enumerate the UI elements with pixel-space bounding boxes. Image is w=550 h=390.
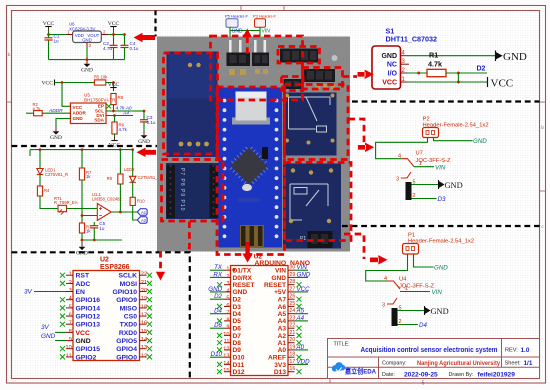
svg-text:5: 5 <box>422 381 425 387</box>
arrow head up to headers <box>243 29 252 38</box>
svg-text:1u: 1u <box>99 226 105 231</box>
regulator U6 pin 3 stub <box>87 43 92 49</box>
U2 ARDUINO_NANO pin 8 D5 <box>217 317 241 325</box>
U2 ARDUINO_NANO pin 30 VIN <box>275 264 308 274</box>
photo ESP32 module board <box>167 52 218 158</box>
U2 ESP8266 pin 7 GPIO13 <box>60 321 100 329</box>
svg-text:GPIO4: GPIO4 <box>116 346 137 353</box>
svg-text:CS0: CS0 <box>124 313 137 320</box>
title block frame <box>328 339 540 379</box>
U2 ARDUINO_NANO pin 22 A3 <box>278 323 302 333</box>
U2 ESP8266 pin 12 GPIO0 <box>116 353 152 361</box>
wire VCC to R5 <box>55 82 95 84</box>
svg-text:4: 4 <box>384 276 387 282</box>
capacitor C2 <box>113 35 115 60</box>
svg-text:U4: U4 <box>399 277 407 283</box>
resistor R9 body <box>119 150 121 174</box>
relay U7 pin2 wire to D3 <box>412 198 437 200</box>
svg-text:5: 5 <box>69 304 72 310</box>
photo relay board bottom <box>283 164 341 249</box>
resistor R8 body <box>111 94 116 105</box>
resistor R7 body <box>81 150 83 168</box>
svg-text:1u: 1u <box>54 38 60 43</box>
svg-text:6: 6 <box>69 313 72 319</box>
svg-text:D0/RX: D0/RX <box>233 275 253 282</box>
svg-text:A3: A3 <box>278 326 287 333</box>
svg-text:8: 8 <box>226 317 229 323</box>
svg-text:DHT11_C87032: DHT11_C87032 <box>386 35 438 44</box>
svg-text:18: 18 <box>290 352 296 358</box>
svg-text:TITLE:: TITLE: <box>334 342 350 348</box>
svg-text:GPIO14: GPIO14 <box>76 305 101 312</box>
callout leader up to headers <box>246 37 249 59</box>
U2 ESP8266 pin 14 GPIO5 <box>116 337 152 345</box>
U2 ESP8266 pin 11 GPIO2 <box>60 353 96 361</box>
svg-text:14: 14 <box>141 337 148 343</box>
svg-text:A2: A2 <box>278 333 287 340</box>
svg-text:VCC: VCC <box>297 286 311 293</box>
svg-text:13: 13 <box>223 354 229 360</box>
wire R3 to bottom rail <box>82 233 122 240</box>
U2 ESP8266 pin 21 MOSI <box>120 280 152 288</box>
U2 ESP8266 pin 1 RST <box>60 272 90 280</box>
wire SCL to C3 <box>133 110 144 112</box>
svg-text:D4: D4 <box>233 311 242 318</box>
svg-text:A4: A4 <box>122 110 129 116</box>
svg-text:GND: GND <box>233 289 248 296</box>
svg-text:VCC: VCC <box>43 21 55 27</box>
ground symbol GND right <box>496 51 502 62</box>
svg-text:3: 3 <box>69 288 72 294</box>
U2 ARDUINO_NANO pin 17 3V3 <box>274 358 310 368</box>
U2 ARDUINO_NANO pin 21 A2 <box>278 330 302 340</box>
wire opamp output <box>111 211 137 213</box>
arrow down to ESP symbol <box>156 272 165 281</box>
wire GND net from S1 pin4 <box>407 55 496 57</box>
svg-text:R_T09R_EA: R_T09R_EA <box>54 200 78 205</box>
svg-text:GND: GND <box>434 264 448 271</box>
photoresistor RT1 body <box>58 205 67 211</box>
arrow left to regulator <box>134 33 156 42</box>
wire RT1 to opamp <box>67 208 98 210</box>
ground symbol regulator <box>81 61 93 74</box>
svg-text:A2: A2 <box>141 218 147 223</box>
svg-text:12: 12 <box>141 353 147 359</box>
wire header P5 to P3 <box>230 27 260 36</box>
U2 ARDUINO_NANO pin 4 GND <box>208 286 247 296</box>
chip U2 ESP8266 body <box>73 271 140 361</box>
svg-text:A7: A7 <box>278 297 287 304</box>
svg-text:SDA: SDA <box>94 117 104 122</box>
svg-text:A4: A4 <box>278 318 287 325</box>
U2 ARDUINO_NANO pin 13 D10 <box>210 351 245 361</box>
U2 ESP8266 pin 5 GPIO14 <box>60 304 100 312</box>
wire P1 pin1 to U4 <box>366 254 408 281</box>
svg-text:19: 19 <box>141 296 147 302</box>
svg-text:GND: GND <box>82 38 92 43</box>
svg-text:3: 3 <box>396 177 399 183</box>
svg-text:Sheet:: Sheet: <box>505 361 522 367</box>
svg-text:R8: R8 <box>118 95 124 100</box>
svg-text:MISO: MISO <box>120 305 137 312</box>
svg-text:D2: D2 <box>214 293 222 300</box>
resistor R2 body <box>34 111 43 116</box>
svg-text:GND: GND <box>41 333 56 340</box>
resistor R3 body <box>81 216 83 224</box>
frame tick right divider 2 <box>540 190 546 192</box>
svg-text:2: 2 <box>69 280 72 286</box>
svg-text:22: 22 <box>290 323 296 329</box>
svg-text:D2: D2 <box>477 66 486 73</box>
svg-text:GND: GND <box>445 181 463 190</box>
svg-text:GPIO2: GPIO2 <box>76 354 97 361</box>
svg-text:D2: D2 <box>233 297 242 304</box>
svg-text:21: 21 <box>141 280 147 286</box>
svg-text:9: 9 <box>226 325 229 331</box>
svg-text:RX: RX <box>213 271 222 278</box>
svg-text:1: 1 <box>226 267 229 273</box>
S1 pin stubs <box>401 56 410 82</box>
frame tick right divider 1 <box>540 101 546 103</box>
resistor R5 body <box>94 80 105 85</box>
relay U7 switch <box>401 159 414 178</box>
U2 ARDUINO_NANO pin 27 +5V <box>274 286 310 296</box>
svg-text:VCC: VCC <box>76 330 90 337</box>
separator dashed right upper <box>352 100 540 102</box>
svg-text:VCC: VCC <box>73 105 83 110</box>
power symbol VCC right <box>487 77 489 87</box>
wire R7 to inverting input <box>82 180 97 216</box>
svg-text:20: 20 <box>290 337 296 343</box>
svg-text:GND: GND <box>81 68 93 74</box>
arrow right to DHT11 <box>358 70 374 79</box>
regulator U6 pin 2 stub <box>101 30 108 35</box>
chip U5 body <box>70 103 106 124</box>
svg-text:D8: D8 <box>233 340 242 347</box>
U2 ARDUINO_NANO pin 7 D4 <box>210 308 241 318</box>
U2 ESP8266 pin 4 GPIO16 <box>60 296 100 304</box>
svg-text:Nanjing Agricultural Universit: Nanjing Agricultural University <box>417 360 500 367</box>
wire R9 to output <box>119 184 121 212</box>
ground symbol at U7 <box>439 180 444 189</box>
separator dashed left lower with corner <box>12 252 190 378</box>
svg-text:RESET: RESET <box>264 282 286 289</box>
svg-text:D7: D7 <box>233 333 242 340</box>
svg-text:4: 4 <box>226 288 229 294</box>
callout box top right connector <box>278 47 320 64</box>
photo arduino nano board <box>219 88 283 248</box>
relay U7 coil <box>406 182 412 200</box>
wire top rail sensor <box>30 149 133 151</box>
svg-text:22: 22 <box>141 272 147 278</box>
svg-text:Drawn By:: Drawn By: <box>449 372 474 378</box>
svg-text:12: 12 <box>223 346 229 352</box>
arrow down to arduino symbol <box>245 242 249 254</box>
wire I/O net right part to D2 <box>446 72 487 74</box>
header P2 body <box>423 128 439 138</box>
chip U2 ARDUINO_NANO body <box>231 266 289 376</box>
callout box mid right connector <box>303 68 343 90</box>
svg-text:D3: D3 <box>233 304 242 311</box>
svg-text:1: 1 <box>419 161 422 167</box>
svg-text:11: 11 <box>224 339 230 345</box>
svg-text:b: b <box>8 52 11 57</box>
power flag VCC input <box>43 21 55 30</box>
U2 ARDUINO_NANO pin 12 D9 <box>217 346 241 354</box>
wire R1 to VCC vertical <box>457 73 459 82</box>
svg-text:3V3: 3V3 <box>274 362 286 369</box>
separator dashed left upper <box>12 145 158 147</box>
callout leader to ESP symbol <box>188 222 191 252</box>
relay U4 switch <box>387 281 400 304</box>
capacitor C1 <box>48 35 50 60</box>
svg-text:TXD0: TXD0 <box>120 322 138 329</box>
svg-text:A1: A1 <box>278 340 287 347</box>
callout box small connector <box>282 77 304 91</box>
U2 ARDUINO_NANO pin 2 D0/RX <box>210 271 253 281</box>
wire rail stub left <box>29 150 31 156</box>
svg-text:D11: D11 <box>233 362 245 369</box>
svg-text:16: 16 <box>141 321 147 327</box>
svg-text:P7 P8 P9 P10: P7 P8 P9 P10 <box>179 168 185 211</box>
capacitor C3 <box>143 111 145 132</box>
svg-text:VDD: VDD <box>297 358 311 365</box>
U2 ESP8266 pin 15 RXD0 <box>119 329 152 337</box>
svg-text:D4: D4 <box>214 308 222 315</box>
svg-text:7: 7 <box>226 310 229 316</box>
header P3 body <box>255 19 266 27</box>
svg-text:20: 20 <box>141 288 147 294</box>
power flag VCC below R6 <box>114 134 116 137</box>
svg-text:11: 11 <box>66 353 72 359</box>
svg-text:VIN: VIN <box>262 29 271 35</box>
wire branch to chip VCC <box>62 83 70 107</box>
U2 ESP8266 pin 2 ADC <box>60 280 90 288</box>
svg-text:D6: D6 <box>214 322 222 329</box>
callout box ESP module <box>164 53 218 154</box>
svg-text:GND: GND <box>271 275 286 282</box>
junction on I/O net right <box>457 72 460 75</box>
U2 ESP8266 pin 10 GPIO15 <box>60 345 100 353</box>
svg-text:VIN: VIN <box>432 289 443 296</box>
svg-text:GND: GND <box>473 138 487 145</box>
svg-text:MOSI: MOSI <box>120 281 137 288</box>
U2 ARDUINO_NANO pin 28 RESET <box>264 279 301 289</box>
U2 ESP8266 pin 3 EN <box>66 288 85 296</box>
U2 ESP8266 pin 6 GPIO12 <box>60 313 100 321</box>
callout box top connectors <box>211 36 303 100</box>
capacitor C5 <box>93 222 95 240</box>
U2 ARDUINO_NANO pin 14 D11 <box>217 361 245 369</box>
svg-text:0.1u: 0.1u <box>130 46 139 51</box>
U2 ESP8266 pin 18 MISO <box>120 304 152 312</box>
svg-text:feifei201929: feifei201929 <box>478 371 516 378</box>
svg-text:D5: D5 <box>233 318 242 325</box>
junction R6 top <box>113 114 116 117</box>
svg-text:R1: R1 <box>429 51 438 60</box>
wire VCC net from S1 pin1 <box>407 81 488 83</box>
U2 ARDUINO_NANO pin 11 D8 <box>217 339 241 347</box>
U2 ARDUINO_NANO pin 24 A5 <box>278 308 308 318</box>
svg-text:1.0: 1.0 <box>521 347 530 354</box>
wire R10 to port A2 <box>133 206 138 221</box>
svg-text:GND: GND <box>73 116 84 121</box>
photo mid right connector <box>304 69 335 89</box>
callout box relay bottom <box>285 163 352 241</box>
svg-text:Date:: Date: <box>382 372 395 378</box>
U2 ARDUINO_NANO pin 23 A4 <box>278 315 308 325</box>
svg-text:b: b <box>541 125 544 130</box>
wire P2 pin2 to GND label <box>434 138 473 141</box>
frame tick top divider 2 <box>283 6 285 11</box>
svg-text:3V: 3V <box>24 289 33 296</box>
U2 ARDUINO_NANO pin 5 D2 <box>210 293 241 303</box>
wire LED1 branch to RT1 <box>40 196 58 209</box>
svg-text:REV:: REV: <box>505 348 518 354</box>
svg-text:VCC: VCC <box>491 78 514 90</box>
port flag A1 <box>137 209 147 215</box>
svg-text:7: 7 <box>69 321 72 327</box>
svg-text:D3: D3 <box>438 196 446 203</box>
photo small connector <box>284 79 302 89</box>
U2 ARDUINO_NANO pin 20 A1 <box>278 337 302 347</box>
svg-text:P3 Header-F: P3 Header-F <box>253 14 276 19</box>
photo carrier board with headers <box>166 163 219 219</box>
svg-text:P5 Header-F: P5 Header-F <box>225 14 248 19</box>
svg-text:8: 8 <box>69 329 72 335</box>
svg-text:13: 13 <box>141 345 147 351</box>
svg-text:R4: R4 <box>44 188 50 193</box>
svg-text:GPIO16: GPIO16 <box>76 297 101 304</box>
svg-text:VCC: VCC <box>382 80 397 87</box>
photo relay board top <box>283 93 337 156</box>
svg-text:ADDR: ADDR <box>48 108 63 114</box>
U2 ESP8266 pin 9 GND <box>66 337 91 345</box>
svg-text:GPIO9: GPIO9 <box>116 297 137 304</box>
callout leader to P1 symbol <box>344 234 364 259</box>
diode LED1 <box>39 150 41 168</box>
svg-text:Acquisition control sensor ele: Acquisition control sensor electronic sy… <box>361 347 498 354</box>
svg-text:GPIO5: GPIO5 <box>116 338 137 345</box>
svg-text:C2T5V61_R: C2T5V61_R <box>45 172 68 177</box>
svg-text:GND: GND <box>138 139 150 145</box>
junction VOUT <box>112 33 115 36</box>
svg-text:D9: D9 <box>233 347 242 354</box>
photo background <box>157 37 350 252</box>
svg-text:9: 9 <box>69 337 72 343</box>
svg-text:A1: A1 <box>141 210 147 215</box>
svg-text:AREF: AREF <box>268 355 286 362</box>
capacitor C4 <box>124 35 126 60</box>
power flag VCC above R8 <box>108 82 120 91</box>
U2 ESP8266 pin 20 GPIO10 <box>112 288 152 296</box>
svg-text:ADC: ADC <box>76 281 91 288</box>
svg-text:BH1750FVI-TR: BH1750FVI-TR <box>84 97 116 102</box>
svg-text:GPIO0: GPIO0 <box>116 354 137 361</box>
svg-text:D6: D6 <box>233 326 242 333</box>
regulator U6 pin 1 stub <box>66 30 73 35</box>
resistor R4 body <box>39 175 41 187</box>
diode LED2 <box>132 150 134 176</box>
junction U6 gnd <box>86 58 89 61</box>
photo top right connector <box>280 49 338 63</box>
relay U4 pin5 wire to GND <box>398 310 425 312</box>
resistor R1 body <box>427 69 446 76</box>
svg-text:10: 10 <box>223 332 229 338</box>
svg-text:2: 2 <box>226 274 229 280</box>
svg-text:VIN: VIN <box>297 264 308 271</box>
svg-text:D4: D4 <box>419 322 427 329</box>
svg-text:GND: GND <box>503 51 527 63</box>
wire ground rail regulator <box>49 59 125 61</box>
svg-text:SCLK: SCLK <box>118 273 137 280</box>
U2 ESP8266 pin 19 GPIO9 <box>116 296 152 304</box>
wire P1 pin2 to GND label <box>414 254 434 267</box>
wire I/O net left part <box>407 72 427 74</box>
wire R2 to ADDR <box>42 112 70 114</box>
relay U4 pin1 stub <box>400 291 430 293</box>
svg-text:LED2: LED2 <box>124 167 135 172</box>
svg-text:4: 4 <box>398 154 401 160</box>
svg-text:26: 26 <box>290 294 296 300</box>
svg-text:16: 16 <box>290 366 296 372</box>
svg-text:EN: EN <box>76 289 86 296</box>
callout box bottom headers <box>162 160 224 222</box>
photo P1 connector <box>300 231 333 248</box>
callout box arduino nano <box>217 87 285 255</box>
svg-text:4.7k: 4.7k <box>119 127 128 132</box>
callout leader to relay circuit 1 <box>349 119 365 144</box>
U2 ESP8266 pin 22 SCLK <box>118 272 152 280</box>
svg-text:ADDR: ADDR <box>73 110 87 115</box>
svg-text:1: 1 <box>69 272 72 278</box>
junction C4 top <box>123 33 126 36</box>
svg-text:4.7k: 4.7k <box>428 60 442 69</box>
svg-text:3V: 3V <box>41 324 50 331</box>
svg-text:A0: A0 <box>278 347 287 354</box>
relay U7 pin5 wire to GND <box>412 184 439 186</box>
U2 ESP8266 pin 16 TXD0 <box>120 321 152 329</box>
frame tick top divider 1 <box>240 6 242 11</box>
U2 ESP8266 pin 17 CS0 <box>124 313 152 321</box>
power flag VCC bh1750 left <box>41 80 54 87</box>
wire GND to GND pin <box>41 333 66 341</box>
relay U7 pin1 stub <box>414 166 434 168</box>
wire U6 GND to rail <box>86 47 88 60</box>
junction on I/O net <box>417 72 420 75</box>
svg-text:D1/TX: D1/TX <box>233 268 252 275</box>
svg-text:GPIO15: GPIO15 <box>76 346 101 353</box>
svg-text:GPIO13: GPIO13 <box>76 322 101 329</box>
U2 ARDUINO_NANO pin 16 D13 <box>274 366 302 376</box>
svg-text:15: 15 <box>141 329 147 335</box>
svg-text:A5: A5 <box>278 311 287 318</box>
svg-text:GND: GND <box>76 338 91 345</box>
svg-text:R5 10k: R5 10k <box>94 75 108 80</box>
wire R2 left <box>26 112 34 114</box>
ground symbol at U4 <box>425 306 430 315</box>
svg-text:VCC: VCC <box>108 82 120 88</box>
svg-text:GND: GND <box>381 53 397 60</box>
sensor S1 body <box>372 46 401 89</box>
svg-text:6: 6 <box>226 303 229 309</box>
svg-text:A0: A0 <box>296 344 305 351</box>
svg-text:VIN: VIN <box>435 164 446 171</box>
svg-text:U7: U7 <box>416 151 423 157</box>
svg-text:GPIO10: GPIO10 <box>112 289 137 296</box>
ground symbol U5 <box>50 128 62 141</box>
separator dashed right lower <box>342 225 540 227</box>
